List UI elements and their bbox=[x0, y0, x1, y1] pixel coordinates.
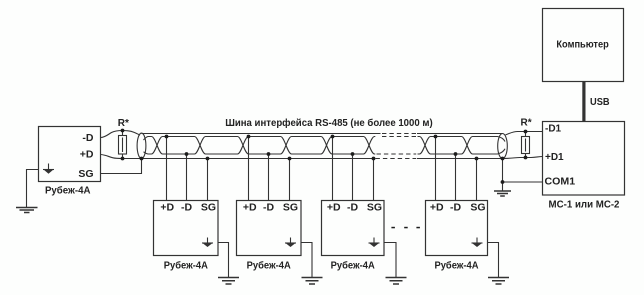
svg-text:-D: -D bbox=[450, 202, 461, 214]
svg-text:SG: SG bbox=[78, 168, 93, 180]
svg-text:SG: SG bbox=[283, 202, 298, 214]
tap +D box1 bbox=[166, 137, 168, 201]
tap SG box4 bbox=[476, 159, 478, 201]
svg-text:Компьютер: Компьютер bbox=[556, 40, 608, 51]
node: box4 +D bbox=[434, 135, 438, 139]
svg-text:Шина интерфейса RS-485 (не бол: Шина интерфейса RS-485 (не более 1000 м) bbox=[225, 117, 433, 129]
node: box3 -D bbox=[351, 152, 355, 156]
node: COM1/screen junction bbox=[501, 180, 505, 184]
computer box bbox=[543, 9, 624, 82]
ground (earth) below left box bbox=[16, 208, 38, 213]
continuation dots between box3 and box4 bbox=[391, 227, 420, 229]
signal-ground symbol inside left box bbox=[43, 164, 54, 174]
tap +D box4 bbox=[435, 137, 437, 201]
node: box1 +D bbox=[165, 135, 169, 139]
svg-text:COM1: COM1 bbox=[545, 176, 576, 187]
wire: -D from left box to terminator bbox=[101, 131, 141, 138]
wire: -D1 from cable to MC box bbox=[506, 132, 543, 135]
wire box1 to earth bbox=[218, 243, 229, 278]
signal-ground symbol inside box2 bbox=[285, 238, 296, 247]
svg-text:+D: +D bbox=[430, 202, 444, 214]
USB cable bbox=[582, 82, 585, 122]
terminating resistor R* (right) bbox=[522, 132, 530, 158]
node: screen right bbox=[501, 157, 505, 161]
terminating resistor R* (left) bbox=[119, 131, 127, 159]
signal-ground symbol inside box4 bbox=[472, 238, 483, 247]
bottom device box 2 Рубеж-4А bbox=[237, 201, 302, 256]
svg-text:-D1: -D1 bbox=[545, 123, 562, 134]
tap -D box2 bbox=[268, 154, 270, 201]
twisted pair dashes (break) bottom bbox=[377, 153, 417, 155]
svg-text:+D: +D bbox=[160, 202, 174, 214]
twisted pair wire A (left section) bbox=[144, 137, 376, 155]
node: resistor R bottom bbox=[524, 156, 528, 160]
wire box3 to earth bbox=[384, 243, 396, 278]
screen rail dashes (break) top bbox=[382, 133, 416, 135]
node: resistor L top bbox=[121, 129, 125, 133]
node: box3 SG bbox=[372, 157, 376, 161]
svg-text:USB: USB bbox=[590, 97, 610, 108]
node: box4 -D bbox=[454, 152, 458, 156]
node: box4 SG bbox=[475, 157, 479, 161]
tap -D box4 bbox=[455, 154, 457, 201]
svg-text:+D: +D bbox=[243, 202, 257, 214]
ground (earth) for cable screen bbox=[494, 191, 511, 196]
ground (earth) below box1 bbox=[218, 278, 239, 285]
node: resistor L bottom bbox=[121, 157, 125, 161]
node: box1 SG bbox=[206, 157, 210, 161]
MC interface box МС-1 или МС-2 bbox=[543, 122, 625, 196]
svg-text:SG: SG bbox=[367, 202, 382, 214]
screen rail bottom (right section) bbox=[417, 158, 503, 160]
wire: +D from left box to terminator bbox=[101, 155, 141, 159]
svg-text:SG: SG bbox=[201, 202, 216, 214]
node: screen/SG left bbox=[140, 157, 144, 161]
node: box1 -D bbox=[185, 152, 189, 156]
svg-text:+D: +D bbox=[327, 202, 341, 214]
screen rail top (right section) bbox=[417, 133, 503, 135]
node: box2 +D bbox=[247, 135, 251, 139]
ground (earth) below box3 bbox=[386, 278, 407, 285]
bottom device box 3 Рубеж-4А bbox=[322, 201, 385, 256]
cable cross-section ellipse (right) bbox=[498, 134, 508, 159]
svg-text:Рубеж-4А: Рубеж-4А bbox=[331, 259, 375, 271]
tap SG box1 bbox=[207, 159, 209, 201]
svg-text:Рубеж-4А: Рубеж-4А bbox=[164, 259, 208, 271]
twisted pair wire B (left section) bbox=[144, 137, 376, 155]
node: resistor R top bbox=[524, 130, 528, 134]
wire box2 to earth bbox=[301, 243, 312, 278]
wire: COM1 from MC box to screen wire bbox=[503, 181, 543, 183]
wire: SG from left box to cable screen bbox=[101, 159, 142, 174]
svg-text:R*: R* bbox=[521, 117, 532, 128]
svg-text:Рубеж-4А: Рубеж-4А bbox=[45, 184, 91, 196]
tap +D box2 bbox=[248, 137, 250, 201]
svg-text:+D1: +D1 bbox=[545, 152, 564, 163]
wire: cable screen down to earth near MC bbox=[502, 159, 504, 192]
svg-text:МС-1 или МС-2: МС-1 или МС-2 bbox=[549, 200, 620, 211]
svg-text:Рубеж-4А: Рубеж-4А bbox=[247, 259, 291, 271]
svg-text:R*: R* bbox=[118, 118, 129, 129]
tap -D box3 bbox=[352, 154, 354, 201]
left device box Рубеж-4А bbox=[39, 127, 101, 182]
screen rail top (left section) bbox=[142, 133, 381, 135]
twisted pair wire B (right section) bbox=[418, 137, 506, 155]
tap SG box3 bbox=[373, 159, 375, 201]
tap -D box1 bbox=[186, 154, 188, 201]
wire box4 to earth bbox=[488, 243, 499, 278]
svg-text:-D: -D bbox=[263, 202, 274, 214]
svg-text:SG: SG bbox=[470, 202, 485, 214]
svg-text:+D: +D bbox=[80, 148, 94, 160]
bottom device box 1 Рубеж-4А bbox=[154, 201, 219, 256]
node: box3 +D bbox=[331, 135, 335, 139]
signal-ground symbol inside box3 bbox=[369, 238, 380, 247]
bottom device box 4 Рубеж-4А bbox=[426, 201, 488, 256]
tap +D box3 bbox=[332, 137, 334, 201]
svg-text:-D: -D bbox=[181, 202, 192, 214]
node: box2 -D bbox=[267, 152, 271, 156]
cable cross-section ellipse (left) bbox=[137, 133, 146, 158]
twisted pair dashes (break) top bbox=[382, 136, 416, 138]
junction dots bbox=[121, 129, 528, 184]
svg-text:-D: -D bbox=[347, 202, 358, 214]
screen rail bottom (left section) bbox=[142, 158, 374, 160]
signal-ground symbol inside box1 bbox=[202, 238, 213, 247]
twisted pair wire A (right section) bbox=[418, 137, 506, 155]
svg-text:Рубеж-4А: Рубеж-4А bbox=[434, 259, 478, 271]
node: box2 SG bbox=[288, 157, 292, 161]
ground (earth) below box4 bbox=[488, 278, 509, 285]
ground (earth) below box2 bbox=[302, 278, 323, 285]
svg-text:-D: -D bbox=[82, 132, 93, 144]
screen rail dashes (break) bottom bbox=[376, 158, 417, 160]
wire: +D1 from cable to MC box bbox=[503, 157, 543, 159]
tap SG box2 bbox=[289, 159, 291, 201]
wire: left box SG-case to earth bbox=[27, 170, 39, 208]
